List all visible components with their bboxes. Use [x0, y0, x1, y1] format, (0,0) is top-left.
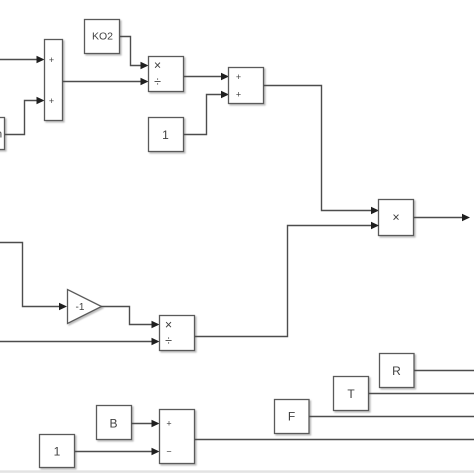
- wire Constant1 to Add2 lower input: [184, 95, 223, 135]
- svg-text:×: ×: [392, 211, 399, 225]
- svg-text:B: B: [109, 416, 117, 430]
- svg-text:F: F: [288, 409, 295, 423]
- wire Divide1 to Add2 upper input: [184, 76, 223, 78]
- block partial (left edge, clipped): [0, 118, 5, 150]
- svg-text:+: +: [166, 418, 171, 428]
- wire input2 to Gain: [0, 243, 60, 307]
- constant block R: [380, 354, 415, 388]
- svg-text:1: 1: [54, 444, 61, 458]
- product block Divide1: [149, 57, 184, 92]
- svg-text:×: ×: [165, 318, 172, 332]
- svg-text:1: 1: [162, 128, 169, 142]
- gain block -1: [68, 290, 102, 324]
- wire Product output: [414, 217, 464, 219]
- wire Gain to Divide2 upper input: [101, 307, 153, 325]
- svg-text:R: R: [392, 364, 401, 378]
- wire Divide2 to Product lower input: [195, 226, 373, 337]
- constant block 1 (lower): [40, 435, 75, 468]
- wire input1 to Add1: [0, 59, 38, 61]
- svg-text:+: +: [236, 89, 241, 99]
- product block Divide2: [160, 316, 195, 351]
- sum block Add3: [160, 410, 195, 464]
- constant block B: [97, 406, 132, 440]
- wire partial block to Add1 lower input: [5, 101, 38, 135]
- svg-text:+: +: [49, 96, 54, 106]
- svg-text:+: +: [49, 55, 54, 65]
- wire F output: [309, 416, 474, 418]
- wire Constant2 to Add3 minus input: [75, 451, 153, 453]
- svg-text:÷: ÷: [154, 75, 161, 89]
- sum block Add2: [229, 68, 264, 104]
- svg-text:n: n: [0, 129, 2, 141]
- wire Add1 to Divide1 lower input: [63, 81, 142, 83]
- wire R output: [414, 370, 474, 372]
- wire B to Add3 plus input: [131, 423, 153, 425]
- constant block T: [334, 377, 369, 411]
- svg-text:÷: ÷: [165, 334, 172, 348]
- constant block F: [275, 400, 310, 434]
- wire T output: [369, 393, 474, 395]
- svg-text:×: ×: [154, 58, 161, 72]
- svg-text:-1: -1: [76, 302, 85, 313]
- wire KO2 to Divide1 upper input: [120, 37, 142, 66]
- wire Add2 to Product upper input: [264, 86, 373, 211]
- product block Product: [379, 200, 414, 236]
- sum block Add1: [45, 40, 63, 121]
- wire input3 to Divide2 lower input: [0, 341, 153, 343]
- svg-text:+: +: [236, 72, 241, 82]
- svg-text:KO2: KO2: [92, 31, 113, 43]
- svg-text:−: −: [166, 446, 171, 456]
- bottom edge band: [0, 470, 474, 473]
- svg-text:T: T: [347, 387, 355, 401]
- wire Add3 output: [195, 439, 474, 441]
- constant block 1 (upper): [149, 118, 184, 152]
- constant block KO2: [85, 20, 120, 54]
